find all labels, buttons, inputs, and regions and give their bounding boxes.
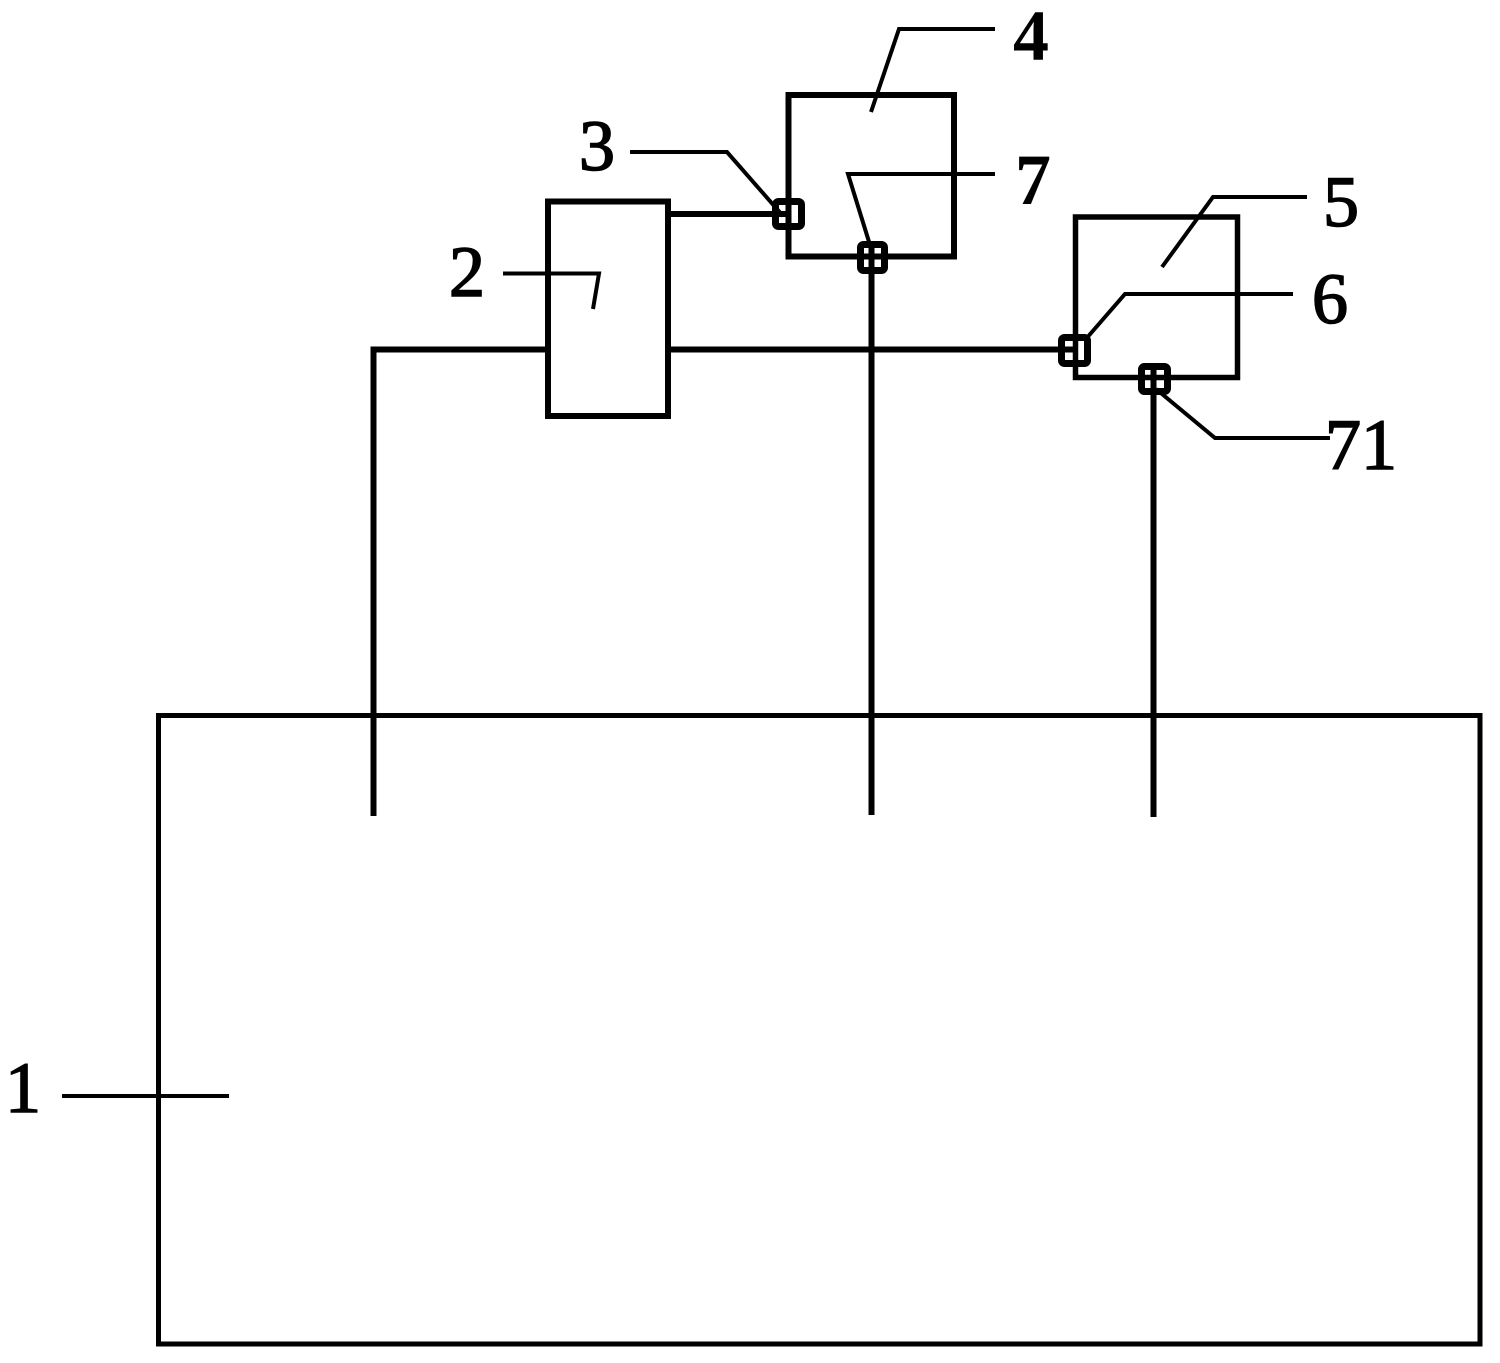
leader line for label 6: [1085, 294, 1293, 340]
wire: box2 right top to box4 left connector: [668, 211, 790, 217]
leader line for label 7: [848, 174, 995, 245]
connector square 3 (on box4 left edge): [776, 202, 802, 227]
wire: box4 bottom connector down into box1: [869, 244, 875, 815]
connector square 71 (on box5 bottom edge): [1142, 367, 1168, 392]
leader line for label 4: [871, 29, 995, 112]
svg-text:6: 6: [1312, 259, 1348, 339]
box 4: [789, 95, 955, 257]
svg-text:2: 2: [449, 232, 485, 312]
svg-text:5: 5: [1323, 162, 1359, 242]
wire: box2 left to vertical drop into box1: [374, 350, 549, 817]
leader line for label 71: [1156, 389, 1330, 438]
box 2: [548, 202, 668, 417]
svg-text:4: 4: [1013, 0, 1049, 76]
svg-text:7: 7: [1015, 140, 1051, 220]
connector square 7 (on box4 bottom edge): [861, 245, 885, 271]
wire: box2 right to box5 left connector: [668, 347, 1077, 353]
svg-text:3: 3: [579, 106, 615, 186]
svg-text:71: 71: [1325, 405, 1397, 485]
leader line for label 1: [62, 1094, 229, 1098]
box 1 (large machine body): [159, 716, 1481, 1345]
leader line for label 5: [1162, 197, 1307, 267]
leader line for label 2: [503, 274, 599, 310]
wire: box5 bottom connector down into box1: [1151, 367, 1157, 817]
leader line for label 3: [630, 152, 783, 216]
svg-text:1: 1: [5, 1048, 41, 1128]
box 5: [1076, 217, 1238, 378]
connector square 6 (on box5 left edge): [1062, 338, 1088, 364]
